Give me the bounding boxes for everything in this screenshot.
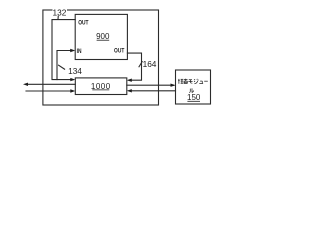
svg-text:150: 150 [187,93,201,102]
arrowhead pointing left (1000 output leaving figure) [23,83,28,86]
block 1000 [75,78,127,95]
katakana ー (long vowel dash) [204,80,208,82]
white mask under label 132 [53,8,68,16]
wire 134 branch: down from IN wire into node [57,51,73,80]
underline of 900 [97,39,110,41]
wire: external input into 1000 left side [26,90,73,92]
leader line for label 134 [59,65,65,69]
katakana ュ [199,81,203,83]
arrowhead into IN of 1000 (left, from loop) [70,78,75,81]
underline of 150 [187,100,200,102]
katakana ジ [194,79,198,84]
svg-text:132: 132 [52,8,66,18]
wire: 1000 output to the left, exits outer box [26,83,75,85]
katakana モ [188,80,192,84]
kanji glyph 2 [184,79,188,84]
svg-text:OUT: OUT [78,20,89,27]
arrowhead into IN of 900 [70,49,75,52]
wire 132 loop: OUT of 900 left side, down to IN of 1000 [52,20,75,80]
svg-text:1000: 1000 [91,82,111,91]
wire: 1000 right side to module 150 [127,84,174,86]
block 150 (module box) [176,70,211,104]
leader line for label 164 [139,62,142,67]
underline of 1000 [92,89,109,91]
katakana ル (line 2, centered) [189,88,194,92]
wire: module 150 to 1000 right side [129,90,176,92]
svg-text:164: 164 [143,59,157,69]
svg-text:134: 134 [68,66,82,76]
kanji glyph 1 [178,79,183,84]
wire 164: OUT of 900 right side, down into 1000 right side [127,53,141,80]
arrowhead into 1000 right side (from wire 164) [127,79,132,82]
outer enclosure box [43,10,159,105]
Japanese text "検査モジュー" line 1 in module 150 (drawn as tiny glyph shapes) [178,79,208,93]
block 900 [75,14,127,59]
arrowhead into module 150 [171,84,176,87]
svg-text:900: 900 [96,32,110,41]
leader line for label 132 [57,15,59,19]
arrowhead into 1000 right side (from module 150) [127,89,132,92]
svg-text:OUT: OUT [114,48,125,55]
arrowhead into 1000 left side (external input) [70,89,75,92]
svg-text:IN: IN [77,49,82,56]
